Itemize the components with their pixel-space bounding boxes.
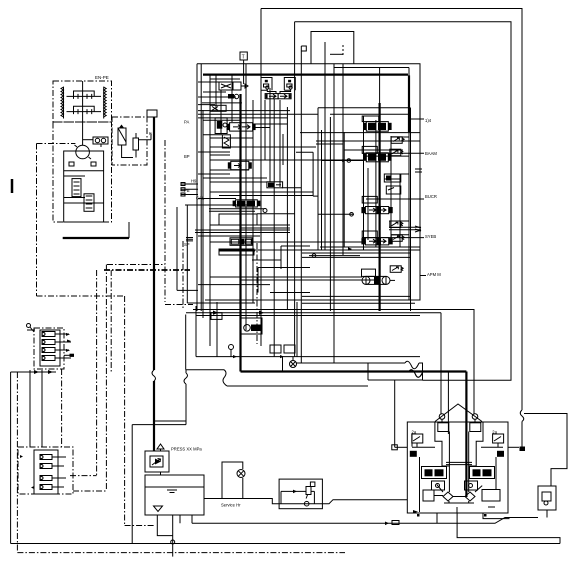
svg-text:1)4: 1)4 bbox=[425, 118, 432, 123]
svg-text:SP: SP bbox=[184, 242, 190, 247]
svg-text:BP: BP bbox=[184, 154, 190, 159]
svg-text:APM M: APM M bbox=[427, 272, 441, 277]
svg-text:T: T bbox=[242, 55, 245, 61]
svg-text:PB: PB bbox=[184, 188, 190, 193]
svg-text:PA: PA bbox=[184, 120, 189, 125]
svg-text:2a: 2a bbox=[412, 430, 417, 435]
svg-text:SYEB: SYEB bbox=[425, 234, 436, 239]
svg-text:CAL: CAL bbox=[196, 196, 205, 201]
svg-text:BAAM: BAAM bbox=[425, 151, 437, 156]
svg-text:BUCR: BUCR bbox=[425, 194, 437, 199]
svg-text:EN-PE: EN-PE bbox=[95, 75, 109, 80]
svg-text:2a: 2a bbox=[492, 430, 497, 435]
svg-text:PRESS XX MPa: PRESS XX MPa bbox=[171, 447, 202, 452]
svg-text:K: K bbox=[149, 131, 152, 136]
svg-text:Service Hr: Service Hr bbox=[221, 503, 241, 508]
svg-text:H9: H9 bbox=[191, 179, 197, 184]
